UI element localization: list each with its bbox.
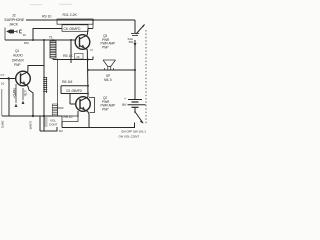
label J2 earphone jack xyxy=(5,14,25,27)
label Q3 xyxy=(101,34,116,49)
capacitor C2 vertical xyxy=(15,84,18,107)
wire x44 below bus xyxy=(43,116,45,131)
svg-text:PNP: PNP xyxy=(102,45,108,49)
svg-text:R5 1K: R5 1K xyxy=(63,54,73,58)
capacitor C9 below bus hatch xyxy=(45,118,48,126)
battery BT1 xyxy=(128,100,146,113)
wire base bus W3 xyxy=(5,39,76,41)
node R6 right xyxy=(87,85,89,87)
svg-text:5MFD+: 5MFD+ xyxy=(12,88,16,98)
switch S1A top-right xyxy=(131,24,145,47)
wire lower return left xyxy=(62,127,89,129)
wire T1 bottom lead xyxy=(52,58,54,60)
node W3-C6 xyxy=(32,39,34,41)
svg-text:R8 10: R8 10 xyxy=(64,115,73,119)
svg-text:C6 .05MFD: C6 .05MFD xyxy=(64,27,81,31)
wire R5 node stub xyxy=(70,40,72,63)
svg-text:10: 10 xyxy=(23,33,27,37)
node top-right corner xyxy=(134,20,136,27)
svg-text:R11 2.2K: R11 2.2K xyxy=(63,13,78,17)
svg-text:SW: SW xyxy=(129,40,134,44)
label Q1 xyxy=(12,49,24,67)
svg-text:R6 1M: R6 1M xyxy=(62,80,72,84)
svg-text:2MFD: 2MFD xyxy=(1,121,5,128)
winding T1 secondary xyxy=(43,77,47,93)
resistor R11 2.2K box xyxy=(57,19,93,24)
svg-text:100MF: 100MF xyxy=(29,121,33,130)
wire left drop x44 xyxy=(43,40,45,116)
resistor R2 vertical xyxy=(22,88,25,104)
earphone jack J2 xyxy=(5,28,22,41)
transistor Q2 xyxy=(76,97,91,112)
svg-text:ON-OFF SW 101-1: ON-OFF SW 101-1 xyxy=(121,130,146,134)
node W3-T1 left xyxy=(43,39,45,41)
wire Q1 input xyxy=(0,78,16,80)
transistor Q3 xyxy=(75,35,90,50)
wire bottom return w9 xyxy=(40,127,57,131)
svg-text:Q1: Q1 xyxy=(15,49,19,53)
wire R11 link down xyxy=(92,20,94,29)
ghost smudge top b xyxy=(59,4,72,5)
svg-text:9V: 9V xyxy=(122,103,127,107)
capacitor C6 box xyxy=(62,25,88,32)
svg-text:C5 .05MFD: C5 .05MFD xyxy=(66,89,83,93)
label Q2 xyxy=(101,96,116,111)
svg-text:+: + xyxy=(124,97,126,101)
node speaker right xyxy=(134,69,136,71)
resistor R5 wire xyxy=(53,59,93,61)
transformer T1 primary winding xyxy=(50,41,56,58)
resistor R4 below bus xyxy=(39,116,41,131)
svg-text:ON VOL CONT: ON VOL CONT xyxy=(119,135,140,139)
wire right rail xyxy=(134,40,136,100)
wire Q1 emitter down xyxy=(28,86,33,116)
wire speaker bus xyxy=(88,69,135,71)
node q3 emitter junction xyxy=(90,49,93,51)
node W3-R5 xyxy=(70,39,72,41)
ghost smudge top a xyxy=(30,4,42,5)
wire bottom-right return xyxy=(89,127,135,129)
capacitor C5 wire xyxy=(61,93,88,95)
node Q1 base xyxy=(8,77,10,79)
svg-text:AUDIO: AUDIO xyxy=(13,54,23,58)
svg-text:R4: R4 xyxy=(59,129,63,133)
wire Q2 emitter to corner xyxy=(88,112,89,128)
svg-text:T1: T1 xyxy=(49,36,53,40)
wire Q2 base xyxy=(70,103,76,105)
node C5 right xyxy=(87,93,89,95)
wire R8 to lower return xyxy=(61,122,63,128)
wire top bus B+ xyxy=(26,19,135,21)
node battery minus xyxy=(134,111,136,113)
wire Q2 right bracket xyxy=(89,98,95,113)
node T1 top xyxy=(52,39,54,41)
svg-text:J2: J2 xyxy=(12,14,16,18)
wire R6 left drop xyxy=(60,86,62,94)
mechanical link dashed xyxy=(145,30,147,124)
wire Q3 emitter rail down xyxy=(86,50,89,98)
svg-text:4.7K: 4.7K xyxy=(23,90,27,97)
wire Q3 collector up xyxy=(86,29,89,36)
wire Q1 collector up xyxy=(28,66,44,72)
svg-text:DM: DM xyxy=(24,41,29,45)
wire C6 left xyxy=(33,29,62,41)
svg-text:EARPHONE: EARPHONE xyxy=(5,18,25,22)
wire Q2 bottom lead xyxy=(77,111,79,117)
svg-text:CONT: CONT xyxy=(49,123,58,127)
svg-text:DRIVER: DRIVER xyxy=(12,58,24,62)
node J (R11 right) xyxy=(92,19,94,21)
transistor Q1 xyxy=(16,71,31,86)
wire page-left rail xyxy=(1,89,3,116)
speaker SP xyxy=(103,60,116,70)
wire T1 top lead xyxy=(52,40,54,41)
switch S1B bottom-right xyxy=(135,113,144,128)
wire C6 right xyxy=(88,28,93,30)
potentiometer VOL xyxy=(52,60,63,117)
wire bottom bus left xyxy=(2,115,62,117)
svg-text:PNP: PNP xyxy=(14,63,20,67)
resistor R6 wire xyxy=(61,85,88,87)
node pot top xyxy=(57,59,59,61)
node speaker left xyxy=(87,69,89,71)
svg-text:MIL 5: MIL 5 xyxy=(104,78,112,82)
node bus x44 xyxy=(43,115,45,117)
svg-text:C7: C7 xyxy=(1,73,5,77)
svg-text:R9 10: R9 10 xyxy=(42,15,51,19)
svg-text:1K: 1K xyxy=(76,55,80,59)
wire left return rail xyxy=(8,79,10,117)
svg-text:PNP: PNP xyxy=(102,107,108,111)
resistor R10 box below Q3 xyxy=(75,54,84,60)
svg-text:JACK: JACK xyxy=(9,23,19,27)
resistor R8 box xyxy=(62,116,78,122)
svg-text:10: 10 xyxy=(1,82,5,86)
node bus x33 xyxy=(32,115,34,117)
